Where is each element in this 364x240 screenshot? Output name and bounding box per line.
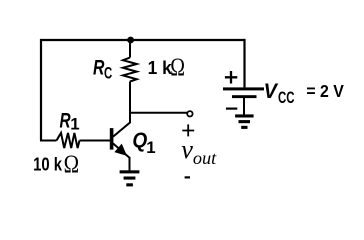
wire: RC bottom lead / collector column	[129, 82, 131, 124]
transistor Q1: base bar	[110, 128, 114, 150]
battery VCC: minus sign	[226, 107, 237, 109]
battery VCC: short negative plate	[232, 95, 257, 98]
svg-text:C: C	[104, 63, 112, 82]
svg-text:R: R	[93, 55, 105, 79]
svg-text:v: v	[181, 134, 193, 164]
node: junction dot at RC top	[127, 37, 134, 44]
resistor R1 (zigzag)	[57, 133, 80, 148]
svg-text:CC: CC	[278, 88, 295, 107]
svg-text:Ω: Ω	[170, 54, 185, 81]
battery VCC: long positive plate	[223, 87, 264, 90]
ground: emitter ground bar 2	[124, 177, 136, 180]
svg-text:1: 1	[70, 114, 79, 133]
transistor Q1: emitter arrowhead	[115, 144, 126, 155]
svg-text:= 2 V: = 2 V	[306, 81, 344, 101]
transistor Q1: collector diagonal	[113, 123, 130, 137]
label: vout minus sign	[185, 176, 190, 178]
svg-text:10 k: 10 k	[33, 154, 63, 174]
wire: RC top lead	[129, 40, 131, 58]
battery VCC: plus sign	[225, 71, 237, 84]
wire: top supply rail	[41, 39, 245, 41]
resistor RC (zigzag)	[123, 58, 137, 82]
wire: output tap from collector	[130, 112, 187, 114]
wire: emitter vertical to ground	[129, 157, 131, 171]
svg-text:out: out	[193, 148, 217, 168]
ground: emitter ground bar 3	[126, 183, 133, 186]
svg-text:Ω: Ω	[64, 151, 79, 178]
transistor Q1: emitter diagonal	[113, 143, 130, 157]
ground: emitter ground bar 1	[120, 170, 140, 173]
svg-text:1: 1	[146, 138, 155, 157]
label: vout plus sign	[182, 124, 194, 136]
ground: battery ground bar 1	[235, 114, 254, 117]
node: vout open terminal	[187, 111, 192, 116]
ground: battery ground bar 3	[241, 126, 247, 129]
ground: battery ground bar 2	[239, 120, 251, 123]
svg-text:V: V	[264, 79, 279, 103]
wire: VCC vertical drop	[243, 39, 245, 88]
wire: left vertical (base bias feed)	[40, 39, 42, 141]
wire: R1 right lead to base	[80, 140, 111, 142]
svg-text:1 k: 1 k	[148, 58, 173, 78]
wire: battery negative stub to ground	[243, 98, 245, 115]
wire: R1 left lead from left rail	[40, 140, 57, 142]
